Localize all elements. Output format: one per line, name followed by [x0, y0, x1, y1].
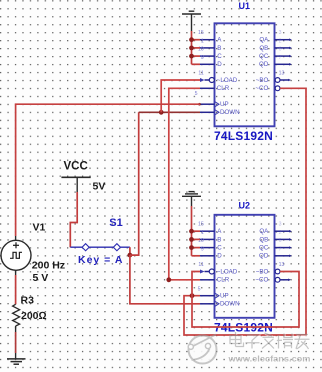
U1 ~BO pin 13 bubble and stub	[275, 78, 291, 83]
junction dot CLR net	[166, 277, 171, 282]
wire junction to U2 DOWN pin	[130, 255, 200, 304]
wire R3 to ground	[15, 326, 17, 359]
wire GND1 to U1 data bus	[192, 31, 201, 64]
svg-text:CLR: CLR	[217, 277, 230, 284]
svg-text:UP: UP	[220, 293, 229, 300]
svg-text:U2: U2	[239, 201, 251, 211]
svg-text:QA: QA	[259, 37, 269, 44]
U2 UP clock pin 5	[200, 293, 219, 299]
svg-text:C: C	[217, 245, 222, 252]
svg-text:QB: QB	[259, 236, 268, 243]
U2 pin stubs right QA QB QC QD	[275, 231, 290, 256]
svg-text:3: 3	[279, 30, 282, 36]
U2 ~BO pin 13 bubble	[275, 269, 280, 274]
svg-text:9: 9	[201, 246, 204, 252]
svg-text:7: 7	[279, 246, 282, 252]
junction dots U1 data bus	[189, 37, 194, 58]
switch S1	[70, 217, 130, 266]
U1 pin numbers	[195, 30, 285, 97]
svg-text:S1: S1	[109, 217, 122, 229]
ground GND3 below R3	[7, 359, 26, 364]
svg-text:3: 3	[279, 222, 282, 228]
svg-text:7: 7	[279, 55, 282, 61]
U2 DOWN clock pin 4	[200, 301, 219, 307]
svg-text:DOWN: DOWN	[220, 109, 240, 116]
svg-text:~CO: ~CO	[255, 277, 268, 284]
svg-text:200Ω: 200Ω	[21, 310, 47, 322]
U1 DOWN clock pin 4	[200, 110, 219, 116]
svg-text:Key = A: Key = A	[78, 254, 123, 266]
svg-text:11: 11	[198, 71, 203, 77]
svg-text:CLR: CLR	[217, 85, 230, 92]
svg-text:~LOAD: ~LOAD	[217, 268, 238, 275]
svg-text:UP: UP	[220, 101, 229, 108]
U2 pin stubs left A B C D	[200, 231, 215, 280]
svg-text:5 V: 5 V	[33, 272, 49, 284]
svg-text:DOWN: DOWN	[220, 301, 240, 308]
svg-text:QD: QD	[259, 253, 269, 260]
svg-text:5: 5	[198, 287, 201, 293]
V1 clock source	[1, 222, 65, 285]
svg-text:2: 2	[279, 38, 282, 44]
junction dot U1 DOWN row	[159, 110, 164, 115]
wire VCC to switch S1	[70, 192, 77, 247]
svg-text:QC: QC	[259, 245, 269, 252]
svg-text:2: 2	[279, 230, 282, 236]
IC U2 74LS192N body	[214, 201, 275, 335]
U2 ~LOAD pin arrow and bubble pin 11	[200, 269, 214, 274]
svg-text:D: D	[217, 253, 222, 260]
svg-text:1: 1	[201, 38, 204, 44]
U1 ~CO pin 12 bubble	[275, 86, 280, 91]
svg-text:5: 5	[195, 91, 198, 97]
junction dot switch net	[127, 253, 132, 258]
resistor R3	[13, 295, 47, 326]
junction dots U2 data bus	[189, 229, 194, 250]
svg-text:QA: QA	[259, 228, 269, 235]
ground GND1 above U1	[182, 11, 201, 31]
wire GND2 to U2 data bus	[192, 206, 201, 256]
U1 ~LOAD pin arrow and bubble pin 11	[200, 78, 214, 83]
svg-text:9: 9	[201, 55, 204, 61]
svg-text:5V: 5V	[93, 180, 106, 192]
svg-text:6: 6	[279, 47, 282, 53]
svg-text:C: C	[217, 53, 222, 60]
svg-text:V1: V1	[33, 222, 46, 234]
svg-text:www.elecfans.com: www.elecfans.com	[227, 354, 310, 364]
U1 UP clock pin 5	[198, 101, 219, 107]
svg-text:R3: R3	[21, 295, 35, 307]
wire U2 ~BO to U2 ~LOAD feedback	[192, 272, 299, 328]
U1 pin stubs left A B C D	[200, 40, 215, 89]
svg-text:VCC: VCC	[64, 161, 88, 173]
svg-text:1: 1	[201, 230, 204, 236]
VCC symbol	[61, 161, 105, 193]
wire U1 CLR to U2 CLR	[169, 88, 200, 279]
svg-text:QC: QC	[259, 53, 269, 60]
svg-text:11: 11	[198, 262, 203, 268]
wire V1 to R3	[15, 275, 17, 304]
svg-text:200 Hz: 200 Hz	[32, 260, 65, 272]
svg-text:QB: QB	[259, 45, 268, 52]
svg-text:74LS192N: 74LS192N	[214, 129, 273, 143]
U2 pin name labels	[217, 228, 269, 308]
svg-text:~LOAD: ~LOAD	[217, 77, 238, 84]
svg-text:U1: U1	[239, 1, 251, 11]
svg-text:6: 6	[279, 238, 282, 244]
U1 pin stubs right QA QB QC QD	[275, 40, 290, 65]
svg-text:B: B	[217, 236, 221, 243]
watermark chinese characters	[230, 332, 310, 350]
svg-text:13: 13	[279, 71, 285, 77]
svg-text:~CO: ~CO	[255, 85, 268, 92]
U2 ~CO pin 12 bubble and stub	[275, 277, 291, 282]
watermark logo circle	[190, 337, 216, 363]
svg-text:15: 15	[198, 222, 204, 228]
junction dot U2 UP row	[190, 293, 195, 298]
U1 pin name labels	[217, 37, 269, 117]
svg-text:13: 13	[279, 262, 285, 268]
wire junction to U1 DOWN	[130, 112, 139, 255]
wire U1 ~CO to U2 UP	[184, 88, 306, 335]
svg-text:~BO: ~BO	[256, 77, 269, 84]
wire V1 to U1 UP pin	[16, 104, 200, 236]
U2 pin numbers	[198, 222, 285, 293]
wire switch to junction	[129, 247, 131, 255]
svg-text:D: D	[217, 61, 222, 68]
svg-text:QD: QD	[259, 61, 269, 68]
svg-text:~BO: ~BO	[256, 268, 269, 275]
svg-text:15: 15	[198, 30, 204, 36]
ground GND2 above U2	[182, 192, 201, 206]
wire to U1 DOWN pin	[139, 111, 200, 113]
wire U1 DOWN net to U1 ~LOAD	[161, 80, 200, 112]
IC U1 74LS192N body	[214, 1, 275, 143]
svg-text:B: B	[217, 45, 221, 52]
